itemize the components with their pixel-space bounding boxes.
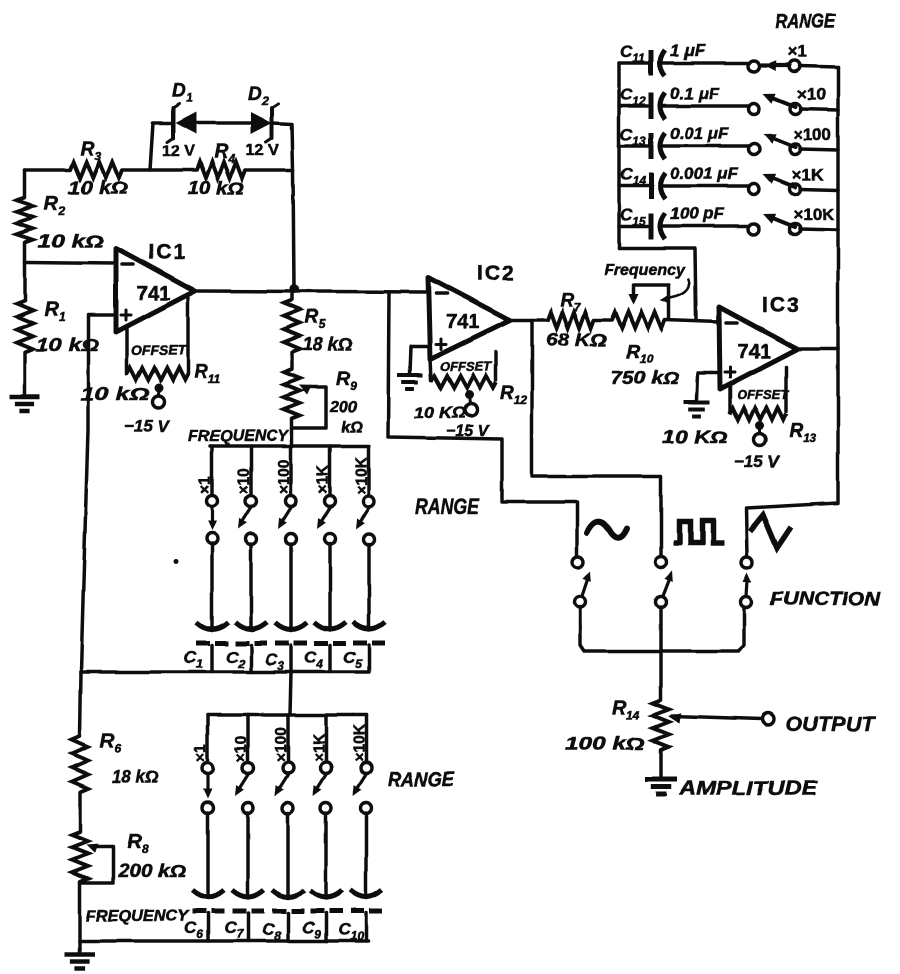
range2 switch column x1K (324, 715, 328, 763)
capacitor C15 100 pF (619, 224, 648, 228)
wire range2 col2 to capacitor (246, 813, 250, 898)
range1 switch column xx10 (249, 446, 253, 496)
svg-text:R9: R9 (336, 369, 357, 393)
wire right rail down to output node (293, 170, 294, 288)
potentiometer R10 (612, 312, 665, 328)
capacitor C6 (192, 890, 224, 897)
ground IC2 (397, 373, 423, 377)
range switch x10 (749, 104, 760, 115)
wire square branch from IC2 output (532, 320, 661, 557)
svg-text:10 KΩ: 10 KΩ (414, 405, 467, 422)
svg-text:R7: R7 (560, 290, 582, 314)
resistor R11 offset pot (127, 368, 188, 380)
resistor R4 (197, 162, 245, 178)
svg-text:200 kΩ: 200 kΩ (117, 861, 186, 881)
cap box left rail (617, 63, 621, 248)
svg-text:C3: C3 (265, 650, 284, 673)
svg-text:OUTPUT: OUTPUT (786, 713, 876, 736)
svg-text:741: 741 (137, 283, 170, 305)
svg-text:C9: C9 (302, 918, 321, 941)
diode D1 12V zener (175, 112, 196, 134)
wire range2 col1 to capacitor (206, 813, 210, 898)
wire range1 col1 to capacitor (210, 544, 214, 630)
resistor R13 offset pot (730, 408, 786, 420)
svg-text:R8: R8 (127, 831, 148, 856)
function switch square (656, 557, 667, 568)
resistor R12 offset pot (431, 376, 496, 388)
function output bus (580, 607, 744, 651)
svg-text:R12: R12 (500, 383, 527, 407)
wire range2 col4 to capacitor (324, 813, 328, 898)
svg-text:10 kΩ: 10 kΩ (68, 178, 128, 198)
svg-text:×100: ×100 (276, 459, 293, 494)
wire R10 to IC3 minus (665, 320, 719, 322)
capacitor C9 (310, 890, 342, 897)
svg-text:OFFSET: OFFSET (737, 387, 789, 402)
svg-text:×1: ×1 (193, 744, 210, 762)
stray dot (174, 560, 179, 565)
svg-text:18 kΩ: 18 kΩ (112, 767, 158, 787)
wire switch to right rail (800, 109, 838, 110)
R9 wiper loop (293, 387, 326, 428)
wire square switch to R14 (659, 607, 663, 700)
R8 wiper loop (81, 847, 113, 883)
wire left rail to R1 (23, 262, 27, 300)
wire switch to right rail (800, 189, 838, 190)
svg-text:×100: ×100 (273, 727, 290, 762)
svg-text:RANGE: RANGE (775, 11, 836, 33)
svg-text:FREQUENCY: FREQUENCY (188, 428, 289, 445)
capacitor C3 (275, 622, 307, 629)
wire IC3 plus to ground (697, 373, 720, 400)
resistor R7 (548, 312, 594, 328)
svg-text:100 pF: 100 pF (670, 204, 724, 223)
svg-text:100 kΩ: 100 kΩ (565, 734, 645, 754)
svg-text:0.01 μF: 0.01 μF (670, 124, 729, 143)
resistor R1 (17, 300, 33, 352)
svg-text:R13: R13 (789, 421, 816, 445)
svg-text:IC2: IC2 (477, 262, 516, 285)
wire center column to range bank 2 (290, 672, 291, 715)
range bank 2 top bus (208, 713, 366, 717)
svg-text:741: 741 (737, 341, 770, 363)
svg-text:×10K: ×10K (354, 456, 371, 494)
wire R5 to R9 (290, 352, 294, 369)
svg-text:1 μF: 1 μF (670, 41, 705, 60)
svg-text:12 V: 12 V (162, 143, 195, 160)
potentiometer R9 frequency (284, 369, 300, 419)
wire range1 col5 to capacitor (367, 544, 371, 630)
R11 wiper terminal (155, 384, 164, 393)
wire between diodes (196, 121, 251, 125)
svg-text:×1K: ×1K (311, 732, 328, 762)
range2 switch column x10 (246, 715, 250, 763)
svg-text:R3: R3 (80, 138, 101, 163)
svg-text:C4: C4 (304, 648, 323, 671)
svg-text:10 kΩ: 10 kΩ (38, 231, 104, 251)
svg-text:741: 741 (446, 311, 479, 333)
wire C15 to switch (663, 224, 749, 228)
svg-text:10 kΩ: 10 kΩ (188, 178, 244, 198)
R14 wiper to output (672, 716, 762, 719)
range switch x100 (749, 144, 760, 155)
range1 switch column xx1 (210, 446, 214, 496)
wire R4 to right corner (245, 168, 292, 172)
range1 switch column xx10K (367, 446, 371, 496)
svg-text:R11: R11 (194, 362, 221, 386)
right rail from cap box to IC3 output (836, 67, 840, 349)
resistor R3 (70, 162, 122, 178)
svg-text:R5: R5 (305, 307, 326, 331)
op-amp IC2 741 (428, 277, 510, 359)
svg-text:FUNCTION: FUNCTION (770, 589, 881, 609)
wire R6 to R8 (78, 792, 82, 832)
svg-text:68 KΩ: 68 KΩ (546, 330, 607, 350)
wire IC2 output (510, 318, 548, 322)
wire R7 to R10 (594, 318, 612, 322)
capacitor C14 0.001 uF (619, 184, 648, 188)
svg-text:AMPLITUDE: AMPLITUDE (678, 778, 818, 800)
svg-text:R10: R10 (626, 342, 653, 366)
svg-text:IC1: IC1 (148, 241, 187, 264)
function switch triangle (742, 557, 753, 568)
square wave symbol (673, 521, 724, 543)
wire switch to right rail (800, 66, 838, 67)
svg-text:10 KΩ: 10 KΩ (662, 427, 728, 447)
resistor R2 (17, 198, 33, 242)
wire range2 col3 to capacitor (286, 813, 290, 898)
range2 switch column x1 (206, 715, 210, 763)
range switch x1 (749, 61, 760, 72)
function switch sine (573, 557, 584, 568)
wire R9 to range bank 1 (290, 419, 294, 446)
potentiometer R14 amplitude (653, 700, 669, 750)
cap box bottom to IC3 input (619, 248, 696, 320)
svg-text:RANGE: RANGE (415, 494, 480, 519)
capacitor C2 (235, 622, 267, 629)
resistor R5 (290, 289, 294, 300)
wire IC2 plus to ground (410, 346, 430, 373)
sine wave symbol (587, 522, 627, 538)
svg-text:×10K: ×10K (793, 205, 835, 224)
wire IC1 plus input to left rail down (81, 315, 116, 672)
svg-text:R6: R6 (100, 730, 121, 755)
range bank 1 top bus (210, 444, 368, 448)
svg-text:18 kΩ: 18 kΩ (303, 334, 352, 354)
svg-text:×100: ×100 (793, 125, 831, 144)
svg-text:FREQUENCY: FREQUENCY (86, 908, 189, 925)
wire node to IC1 minus input (25, 262, 116, 263)
wire R1 to ground (23, 352, 27, 395)
svg-text:R2: R2 (44, 193, 65, 218)
wire left rail (23, 170, 27, 198)
svg-text:C1: C1 (184, 648, 203, 671)
range2 switch column x10K (364, 715, 368, 763)
wire C14 to switch (663, 184, 749, 188)
svg-text:D2: D2 (248, 84, 269, 108)
svg-text:C2: C2 (226, 648, 245, 671)
ground bottom left (78, 941, 82, 952)
wire R2 to node (23, 242, 27, 262)
ground below R1 (10, 395, 40, 400)
svg-text:10 kΩ: 10 kΩ (80, 384, 150, 404)
svg-text:kΩ: kΩ (341, 419, 363, 436)
svg-text:×10K: ×10K (351, 724, 368, 762)
wire R3 to R4 (122, 168, 197, 172)
capacitor C1 (196, 622, 228, 629)
wire C13 to switch (663, 144, 749, 148)
range switch x1K (749, 184, 760, 195)
svg-text:×10: ×10 (233, 736, 250, 762)
capacitor C4 (314, 622, 346, 629)
svg-text:OFFSET: OFFSET (440, 359, 492, 374)
wire R14 to ground (659, 750, 663, 777)
wire sine branch from IC1 output (388, 292, 577, 556)
svg-text:C6: C6 (184, 918, 203, 941)
svg-text:−15 V: −15 V (734, 452, 781, 471)
range bank 1 bottom bus (81, 670, 368, 674)
wire range1 col2 to capacitor (249, 544, 253, 630)
capacitor C10 (350, 890, 382, 897)
R12 wiper terminal (465, 391, 474, 400)
wire switch to right rail (800, 229, 838, 230)
resistor R6 (72, 736, 88, 792)
wire range1 col4 to capacitor (328, 544, 332, 630)
range1 switch column xx1K (328, 446, 332, 496)
svg-text:×1: ×1 (197, 476, 214, 494)
range2 switch column x100 (286, 715, 290, 763)
capacitor C8 (272, 890, 304, 897)
svg-text:×10: ×10 (236, 468, 253, 494)
svg-text:×1: ×1 (788, 42, 807, 61)
wire range2 col5 to capacitor (364, 813, 368, 898)
svg-text:0.1 μF: 0.1 μF (670, 84, 720, 103)
svg-text:IC3: IC3 (762, 294, 801, 317)
wire diode branch left (150, 123, 173, 170)
svg-text:750 kΩ: 750 kΩ (611, 368, 679, 388)
capacitor C12 0.1 uF (619, 104, 648, 108)
svg-text:R4: R4 (214, 141, 235, 166)
capacitor C13 0.01 uF (619, 144, 648, 148)
range1 switch column xx100 (289, 446, 293, 496)
svg-text:Frequency: Frequency (604, 262, 686, 279)
wire diode to right rail (272, 123, 293, 170)
IC2 offset box (430, 358, 431, 380)
capacitor C5 (353, 622, 385, 629)
svg-text:0.001 μF: 0.001 μF (670, 164, 739, 183)
diode D2 12V zener (251, 112, 272, 134)
svg-text:D1: D1 (172, 81, 193, 105)
svg-text:×1K: ×1K (315, 464, 332, 494)
wire left rail down to R6 (80, 672, 81, 736)
svg-text:R1: R1 (44, 299, 65, 324)
svg-text:C7: C7 (224, 918, 244, 941)
op-amp IC3 741 (719, 307, 797, 389)
ground IC3 (684, 400, 710, 404)
potentiometer R8 frequency (72, 832, 88, 882)
R10 wiper loop (634, 285, 669, 318)
svg-text:−15 V: −15 V (124, 417, 171, 436)
capacitor C11 1 uF (619, 61, 648, 65)
svg-text:C5: C5 (343, 648, 362, 671)
wire switch to right rail (800, 149, 838, 150)
wire R8 to bottom bus (78, 882, 82, 941)
output terminal (762, 713, 774, 725)
ground amplitude (645, 777, 677, 782)
wire IC3 output to right rail (797, 347, 838, 351)
svg-text:R14: R14 (612, 697, 640, 722)
svg-text:×1K: ×1K (792, 165, 824, 184)
bottom bus bank 2 (80, 939, 368, 943)
IC1 offset network box (125, 326, 129, 374)
svg-text:200: 200 (329, 399, 357, 416)
svg-text:OFFSET: OFFSET (131, 342, 188, 358)
svg-text:12 V: 12 V (246, 142, 279, 159)
wire IC1 output to IC2 (195, 291, 428, 292)
wire range1 col3 to capacitor (289, 544, 293, 630)
wire C11 to switch (663, 61, 749, 65)
IC3 offset box (728, 385, 732, 412)
wire top-left rail horizontal to R3 (25, 168, 70, 172)
svg-text:×10: ×10 (797, 85, 826, 104)
op-amp IC1 741 (116, 248, 195, 332)
svg-text:RANGE: RANGE (388, 769, 455, 791)
wire right rail down to triangle switch (746, 349, 838, 556)
R13 wiper terminal (756, 422, 765, 431)
triangle wave symbol (750, 515, 791, 548)
node junction at R5 top (290, 285, 299, 294)
capacitor C7 (232, 890, 264, 897)
wire C12 to switch (663, 104, 749, 108)
range switch x10K (749, 224, 760, 235)
